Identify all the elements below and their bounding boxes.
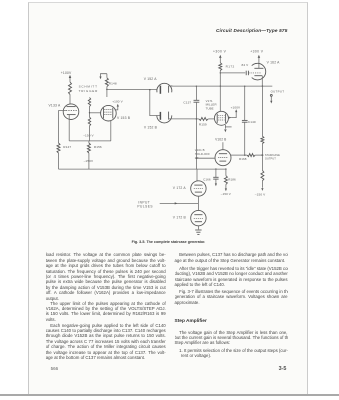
ground (V172B cathode)	[197, 226, 199, 230]
ground (miller cathode)	[224, 125, 226, 129]
resistor (V133A plate load)	[69, 82, 72, 95]
wire (cathode-plate link)	[197, 196, 199, 210]
wire (cathode bus)	[69, 140, 111, 142]
svg-text:C140: C140	[248, 120, 256, 124]
capacitor C166	[215, 168, 216, 169]
capacitor C137	[196, 85, 198, 87]
svg-text:V 162 A: V 162 A	[267, 61, 281, 65]
svg-text:–150V: –150V	[84, 159, 94, 163]
divider resistors between V133A/V133B	[88, 98, 90, 107]
svg-text:OUTPUT: OUTPUT	[271, 90, 285, 94]
resistor R186	[225, 168, 226, 169]
wire (to miller plate)	[219, 71, 221, 112]
wire (output line)	[171, 85, 272, 87]
node (junction)	[106, 89, 108, 91]
svg-text:–150 V: –150 V	[83, 133, 94, 137]
svg-text:V133 A: V133 A	[49, 103, 61, 107]
resistor (to -150V)	[261, 155, 263, 170]
svg-text:R159: R159	[199, 122, 207, 126]
wire (V133B grid)	[90, 112, 101, 114]
svg-text:–150 V: –150 V	[255, 192, 266, 196]
figure caption	[110, 240, 227, 244]
svg-text:V162 B: V162 B	[215, 138, 226, 142]
wire (Schmitt out to diodes)	[107, 88, 157, 90]
svg-text:PULSES: PULSES	[137, 204, 153, 208]
wire (V133B cathode)	[110, 121, 112, 141]
svg-text:+300 V: +300 V	[250, 49, 264, 53]
resistor R156	[88, 141, 90, 143]
svg-text:–150 V: –150 V	[221, 192, 231, 196]
wire	[69, 95, 71, 105]
wire (V162B cathode out) + resistor R168	[231, 154, 247, 156]
trigger input arrow	[99, 77, 101, 80]
body text	[46, 252, 166, 301]
svg-text:V 152 A: V 152 A	[144, 77, 158, 81]
capacitor C140	[244, 85, 246, 87]
svg-text:C166: C166	[203, 177, 211, 181]
svg-text:TUBE: TUBE	[206, 107, 214, 111]
wire (V133A cathode)	[68, 115, 70, 141]
resistor (V162A cathode load)	[261, 86, 263, 136]
wire	[150, 90, 161, 116]
wire (V133A grid)	[59, 111, 66, 143]
wire (miller screen to +100V)	[229, 117, 232, 119]
svg-text:OUTPUT: OUTPUT	[265, 157, 276, 161]
resistor R148	[106, 74, 108, 78]
svg-text:R156: R156	[94, 145, 102, 149]
svg-text:V 172 A: V 172 A	[173, 186, 187, 190]
svg-text:R186: R186	[228, 178, 236, 182]
resistor R172	[219, 63, 222, 71]
wire (V152B to Miller grid, with R159)	[169, 118, 199, 120]
svg-text:R147: R147	[63, 145, 71, 149]
svg-text:R148: R148	[109, 81, 117, 85]
wire (bottom bus)	[59, 168, 227, 170]
wire (input pulses)	[160, 202, 199, 204]
svg-text:V 152 B: V 152 B	[144, 125, 158, 129]
resistor R147	[57, 143, 60, 153]
node (junction at diode input)	[149, 89, 151, 91]
svg-text:R168: R168	[239, 157, 247, 161]
svg-text:+100V: +100V	[61, 71, 72, 75]
wire (V162B grid)	[196, 157, 215, 159]
svg-text:SCHMITT: SCHMITT	[79, 85, 98, 89]
svg-text:R172: R172	[226, 64, 235, 68]
svg-text:84 V: 84 V	[242, 63, 250, 67]
svg-text:STAIRCASE: STAIRCASE	[265, 153, 280, 157]
svg-text:C137: C137	[183, 101, 191, 105]
svg-text:V 153 B: V 153 B	[117, 116, 131, 120]
svg-text:V 172 B: V 172 B	[173, 215, 187, 219]
svg-text:TRIGGER: TRIGGER	[79, 89, 98, 93]
svg-text:+100 V: +100 V	[112, 99, 123, 103]
tube V133B (pentode)	[101, 105, 117, 121]
wire + coupling capacitor to V162A grid	[220, 72, 245, 74]
svg-text:+100V: +100V	[231, 105, 241, 109]
svg-text:+300 V: +300 V	[213, 49, 227, 53]
